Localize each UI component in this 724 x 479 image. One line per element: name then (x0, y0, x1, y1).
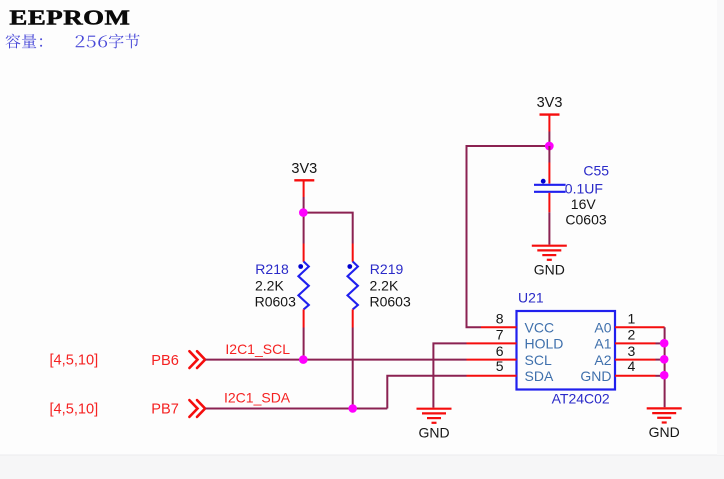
svg-text:AT24C02: AT24C02 (552, 391, 610, 407)
svg-text:PB7: PB7 (151, 402, 179, 418)
pin1 dot R219 (347, 264, 352, 269)
wire: 3V3 stub to junction B (548, 115, 550, 132)
svg-text:6: 6 (496, 343, 504, 359)
wire A1-A2-GND tie bus (664, 327, 666, 407)
pin 3 stub (A2) (615, 359, 656, 361)
pin 5 stub (SDA) (467, 375, 517, 377)
svg-text:2: 2 (628, 327, 636, 343)
svg-text:A2: A2 (594, 352, 611, 368)
svg-text:GND: GND (418, 424, 449, 440)
svg-text:R218: R218 (255, 261, 289, 277)
resistor R219 (348, 262, 358, 310)
wire R219 bottom to SDA net (352, 328, 354, 409)
pin stub C55 bottom (548, 193, 550, 213)
junction B dot (545, 142, 554, 151)
svg-text:A0: A0 (594, 320, 611, 336)
svg-text:2.2K: 2.2K (255, 277, 284, 293)
port chevron PB7 (189, 400, 205, 417)
svg-text:4: 4 (628, 358, 636, 374)
svg-text:C0603: C0603 (565, 211, 606, 227)
wire C55 to GND (548, 212, 550, 244)
subtitle 容量：256字节 (6, 34, 140, 49)
ground GND (right) (647, 408, 682, 422)
wire: 3V3 stub to junction A (303, 180, 305, 197)
pin 6 stub (SCL) (467, 359, 517, 361)
wire junction B down to C55 (548, 146, 550, 163)
resistor R218 (298, 262, 308, 310)
ground GND (HOLD) (417, 409, 452, 423)
junction dot R218/SCL (299, 355, 308, 364)
wire SDA riser to pin5 row (387, 376, 466, 409)
svg-text:[4,5,10]: [4,5,10] (50, 353, 99, 369)
junction A dot (299, 208, 308, 217)
pin 7 stub (HOLD) (467, 342, 517, 344)
capacitor C55 (534, 185, 566, 192)
bottom page edge band (0, 455, 724, 479)
svg-text:7: 7 (496, 327, 504, 343)
pin1 dot C55 (541, 179, 546, 184)
junction dot pin4 (660, 371, 669, 380)
wire: junction A down to R218 (303, 213, 305, 244)
pin stub R218 top (303, 244, 305, 262)
wire: junction B to VCC rail (left + down to pin8) (467, 146, 550, 327)
svg-text:VCC: VCC (525, 320, 555, 336)
svg-text:PB6: PB6 (151, 353, 179, 369)
svg-text:U21: U21 (518, 289, 544, 305)
pin stub C55 top (548, 163, 550, 184)
junction dot R219/SDA (348, 404, 357, 413)
svg-text:R0603: R0603 (370, 294, 411, 310)
svg-text:3V3: 3V3 (537, 95, 563, 111)
junction dot pin3 (660, 355, 669, 364)
svg-text:R0603: R0603 (255, 294, 296, 310)
ground GND (C55) (532, 246, 567, 260)
pin 8 stub (VCC) (481, 326, 517, 328)
svg-text:I2C1_SCL: I2C1_SCL (225, 341, 290, 357)
pin 4 stub (GND) (615, 375, 656, 377)
svg-text:GND: GND (649, 424, 680, 440)
svg-text:EEPROM: EEPROM (9, 7, 130, 30)
svg-text:0.1UF: 0.1UF (565, 180, 603, 196)
svg-text:3: 3 (628, 343, 636, 359)
svg-text:[4,5,10]: [4,5,10] (50, 402, 99, 418)
pin 1 stub (A0) (615, 326, 665, 328)
pin1 dot R218 (298, 264, 303, 269)
pin stub R219 top (352, 244, 354, 262)
svg-text:GND: GND (534, 261, 565, 277)
pin stub R218 bottom (303, 309, 305, 327)
svg-text:2.2K: 2.2K (370, 277, 399, 293)
op IC U21 AT24C02 (517, 311, 616, 390)
wire HOLD to ground drop (433, 343, 466, 407)
svg-text:GND: GND (580, 368, 611, 384)
svg-text:SCL: SCL (525, 352, 552, 368)
wire R218 bottom to SCL net (303, 328, 305, 360)
wire I2C1_SDA horizontal (206, 408, 388, 410)
svg-text:8: 8 (496, 311, 504, 327)
svg-text:3V3: 3V3 (291, 161, 317, 177)
svg-text:1: 1 (628, 311, 636, 327)
pin stub R219 bottom (352, 309, 354, 327)
port chevron PB6 (189, 351, 205, 368)
svg-text:C55: C55 (583, 163, 609, 179)
junction dot pin2 (660, 339, 669, 348)
pin 2 stub (A1) (615, 342, 656, 344)
svg-text:I2C1_SDA: I2C1_SDA (224, 389, 291, 405)
svg-text:R219: R219 (370, 261, 404, 277)
svg-text:HOLD: HOLD (525, 336, 564, 352)
svg-text:16V: 16V (571, 196, 597, 212)
svg-text:5: 5 (496, 358, 504, 374)
svg-text:A1: A1 (594, 336, 611, 352)
wire I2C1_SCL horizontal (206, 359, 467, 361)
svg-text:SDA: SDA (525, 368, 554, 384)
wire: junction A branch to R219 column (304, 213, 353, 244)
